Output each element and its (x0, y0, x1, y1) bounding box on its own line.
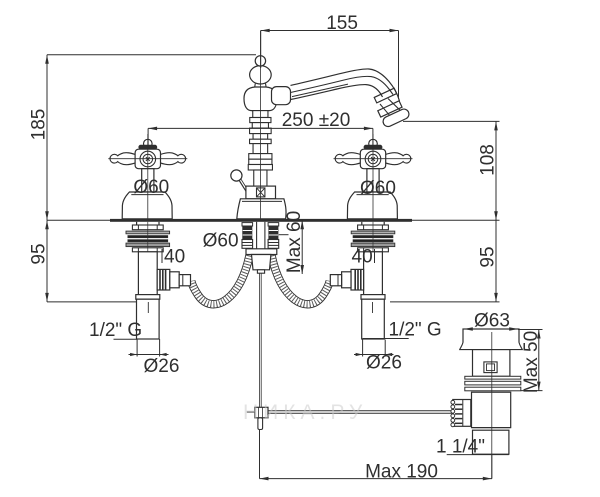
svg-text:40: 40 (352, 247, 373, 268)
svg-text:1/2" G: 1/2" G (389, 320, 442, 341)
svg-text:Ø26: Ø26 (144, 356, 180, 377)
svg-text:250 ±20: 250 ±20 (282, 110, 351, 131)
svg-text:1/2" G: 1/2" G (89, 320, 142, 341)
svg-text:108: 108 (478, 144, 499, 176)
svg-text:Ø60: Ø60 (360, 178, 396, 199)
svg-text:95: 95 (29, 243, 50, 264)
svg-text:40: 40 (164, 247, 185, 268)
svg-text:Ø26: Ø26 (366, 353, 402, 374)
svg-text:155: 155 (326, 13, 358, 34)
svg-text:Max 190: Max 190 (365, 462, 438, 483)
svg-text:Ø60: Ø60 (133, 177, 169, 198)
svg-text:Max 60: Max 60 (284, 211, 305, 273)
svg-text:95: 95 (478, 246, 499, 267)
svg-text:Max 50: Max 50 (521, 331, 542, 393)
svg-text:185: 185 (29, 109, 50, 141)
svg-text:НИКА.РУ: НИКА.РУ (243, 401, 367, 424)
svg-text:Ø63: Ø63 (474, 311, 510, 332)
svg-text:Ø60: Ø60 (203, 231, 239, 252)
